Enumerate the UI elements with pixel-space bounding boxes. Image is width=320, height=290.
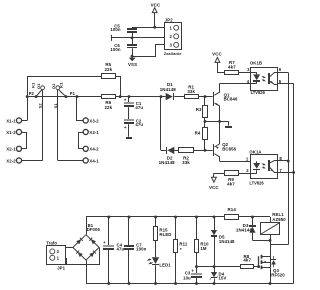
svg-text:AZ850: AZ850: [272, 217, 286, 222]
svg-text:P2: P2: [29, 91, 35, 96]
svg-text:Zasilanie: Zasilanie: [164, 51, 182, 56]
svg-text:IRF520: IRF520: [270, 272, 285, 277]
svg-text:X4-2: X4-2: [89, 147, 99, 152]
svg-text:BC846: BC846: [224, 97, 238, 102]
svg-text:DF005: DF005: [87, 227, 101, 232]
svg-text:R11: R11: [179, 242, 187, 247]
svg-text:+: +: [124, 125, 127, 130]
svg-text:1N4148: 1N4148: [219, 239, 235, 244]
svg-text:X3-2: X3-2: [89, 118, 99, 123]
svg-text:1N4148: 1N4148: [236, 228, 253, 233]
svg-text:4k7: 4k7: [228, 64, 236, 69]
svg-text:100n: 100n: [110, 27, 120, 32]
svg-text:O1: O1: [36, 83, 41, 89]
svg-text:Trafo: Trafo: [46, 240, 57, 245]
svg-text:BC856: BC856: [222, 146, 236, 151]
svg-text:RLED: RLED: [159, 232, 171, 237]
svg-text:10u: 10u: [183, 275, 191, 280]
svg-text:X4-1: X4-1: [89, 158, 99, 163]
svg-text:47u: 47u: [135, 122, 143, 127]
svg-text:X2-1: X2-1: [6, 147, 16, 152]
svg-text:100n: 100n: [110, 47, 120, 52]
svg-text:VCC: VCC: [212, 51, 222, 56]
svg-text:+: +: [103, 240, 106, 245]
svg-text:+: +: [192, 268, 195, 273]
svg-text:X1-2: X1-2: [6, 130, 16, 135]
svg-text:R14: R14: [227, 207, 236, 212]
svg-text:33k: 33k: [187, 89, 195, 94]
svg-text:LTV826: LTV826: [251, 90, 266, 95]
svg-text:S2: S2: [37, 103, 42, 109]
svg-text:1N4148: 1N4148: [160, 87, 177, 92]
svg-text:R3: R3: [196, 107, 202, 112]
svg-text:P1: P1: [70, 91, 76, 96]
svg-text:+: +: [124, 98, 127, 103]
svg-text:22k: 22k: [104, 105, 112, 110]
svg-text:4k7: 4k7: [227, 181, 235, 186]
svg-text:22k: 22k: [104, 67, 112, 72]
svg-text:X2-2: X2-2: [6, 158, 16, 163]
svg-text:1N4148: 1N4148: [159, 160, 176, 165]
svg-text:JP1: JP1: [57, 265, 65, 270]
svg-text:1M: 1M: [200, 246, 206, 251]
svg-text:VCC: VCC: [151, 3, 161, 8]
svg-text:JP2: JP2: [165, 17, 173, 22]
svg-text:LED1: LED1: [159, 263, 171, 268]
svg-text:O2: O2: [51, 83, 56, 89]
svg-text:LTV826: LTV826: [249, 180, 264, 185]
svg-text:OK1B: OK1B: [250, 61, 262, 66]
svg-text:VSS: VSS: [128, 62, 137, 67]
svg-text:100n: 100n: [136, 246, 146, 251]
svg-text:K1: K1: [59, 82, 64, 88]
svg-text:4k7: 4k7: [243, 258, 251, 263]
svg-text:47u: 47u: [117, 246, 125, 251]
svg-text:K1: K1: [31, 82, 36, 88]
svg-text:33k: 33k: [182, 160, 190, 165]
svg-text:47u: 47u: [135, 105, 143, 110]
svg-text:X1-1: X1-1: [6, 118, 16, 123]
svg-text:15V: 15V: [219, 276, 227, 281]
svg-text:R4: R4: [195, 131, 201, 136]
svg-text:OK1A: OK1A: [249, 149, 261, 154]
svg-text:VCC: VCC: [209, 185, 219, 190]
svg-text:X3-1: X3-1: [89, 130, 99, 135]
svg-text:*: *: [180, 247, 182, 253]
svg-text:S1: S1: [53, 103, 58, 109]
